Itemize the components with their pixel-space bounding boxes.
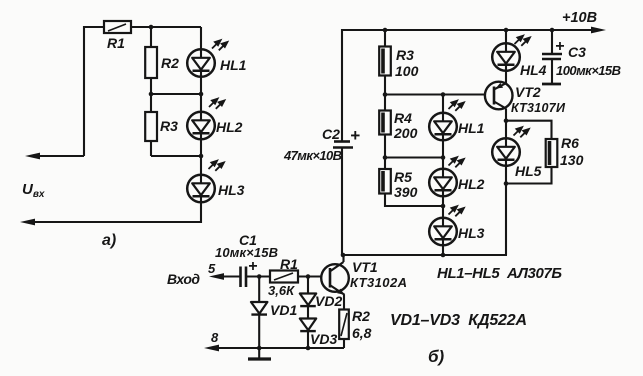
resistor R3 (circuit a) [150,94,152,156]
diode VD2 [307,277,309,349]
capacitor C1 [239,267,242,288]
resistor R1 3.6K [270,271,298,283]
svg-text:+10В: +10В [562,10,597,26]
LED HL2 (circuit a) [187,112,215,140]
svg-text:47мк×10В: 47мк×10В [283,148,342,163]
wire: rung R4/R5 to HL1/HL2 [385,156,443,158]
node: rung3 right [199,154,204,159]
svg-text:+: + [350,126,360,145]
svg-text:R1: R1 [280,256,298,272]
svg-text:HL1: HL1 [458,120,485,136]
wire: left rail upper part [341,29,343,141]
resistor R2 6.8 [339,310,349,340]
svg-text:6,8: 6,8 [352,325,372,341]
node: rail left [341,253,346,258]
transistor VT2 KT3107I (PNP) [485,82,513,110]
transistor VT1 KT3102A (NPN) [321,264,349,292]
svg-text:VT2: VT2 [515,84,541,100]
resistor R5 390 [385,158,443,207]
svg-text:390: 390 [394,184,418,200]
svg-text:R2: R2 [161,55,179,71]
LED HL3 (circuit a) [187,175,215,203]
svg-text:R2: R2 [352,308,370,324]
node: HL3 cathode junction [441,253,446,258]
wire: bottom rail of circuit b [342,254,507,256]
svg-text:HL1–HL5 АЛ307Б: HL1–HL5 АЛ307Б [437,265,562,282]
node: rung1 left [383,92,388,97]
diode VD3 [300,319,316,332]
wire: rung to VT2 base [385,93,494,95]
wire: +10V top rail with arrow [342,29,600,31]
svg-text:VD3: VD3 [310,331,337,347]
wire: VT1 collector up to rail [342,254,344,262]
ground [258,348,260,358]
LED HL4 [505,30,507,84]
LED HL5 [492,138,520,166]
wire: left vertical of circuit a [83,26,85,156]
svg-text:R5: R5 [394,169,412,185]
node: VD1 junction [257,274,262,279]
wire: HL5 leg down to rail [505,184,507,256]
svg-text:R4: R4 [394,110,412,126]
resistor R3 100 [384,30,386,95]
node: HL1 anode junction [441,92,446,97]
svg-text:10мк×15В: 10мк×15В [215,245,278,260]
wire: rung R2-bottom / HL1-bottom [151,93,201,95]
resistor R6 130 [546,139,558,167]
resistor R2 (circuit a) [150,27,152,94]
svg-text:а): а) [102,232,116,249]
svg-text:HL5: HL5 [515,163,542,179]
node: HL5/R6 bottom [504,181,509,186]
wire: top rail of circuit a [84,26,201,28]
wire: HL2 column [200,94,202,156]
node: VD1 bottom [257,346,262,351]
svg-text:C2: C2 [322,126,340,142]
wire: bottom return rail with arrow [209,347,344,349]
node: HL2/HL3 junction [441,204,446,209]
node: VD2 junction [306,274,311,279]
svg-text:200: 200 [393,125,418,141]
node: rung2 right [441,155,446,160]
node: R3 top junction [383,28,388,33]
svg-text:КТ3107И: КТ3107И [511,101,566,115]
svg-text:8: 8 [211,330,219,345]
wire: input lead with arrow [214,275,240,277]
wire: HL5/R6 loop [506,121,552,184]
LED HL3 (circuit b) [429,218,457,246]
svg-text:100: 100 [395,63,419,79]
svg-text:б): б) [428,347,445,366]
LED HL2 (circuit b) [429,169,457,197]
wire: VT2 collector down [505,109,507,121]
capacitor C2 [334,140,350,143]
wire: R1 to VT1 base [298,275,329,277]
svg-text:VT1: VT1 [352,259,378,275]
node: rung2 left [383,155,388,160]
svg-text:HL2: HL2 [458,176,485,192]
node: VD3 bottom [306,346,311,351]
svg-text:R1: R1 [107,35,125,51]
wire: left rail lower part [341,148,343,256]
diode VD1 [258,277,260,349]
svg-text:C3: C3 [568,44,586,60]
wire: HL column (b) [442,95,444,256]
svg-text:КТ3102А: КТ3102А [350,275,407,290]
svg-text:HL3: HL3 [218,182,245,198]
wire: upper input lead with arrow [30,155,84,157]
svg-text:R3: R3 [396,47,414,63]
svg-text:HL1: HL1 [220,57,247,73]
svg-text:HL2: HL2 [216,119,243,135]
svg-text:VD2: VD2 [315,293,342,309]
node: HL5/R6 top [504,118,509,123]
svg-text:5: 5 [208,261,216,276]
LED HL1 (circuit a) [187,49,215,77]
wire: VT1 emitter to R2 [343,295,345,310]
svg-text:VD1–VD3 КД522А: VD1–VD3 КД522А [390,312,527,329]
resistor R4 200 [384,95,386,158]
node: rung2 left [149,92,154,97]
svg-text:3,6К: 3,6К [268,283,295,298]
svg-text:HL3: HL3 [458,225,485,241]
node: HL4 top junction [504,28,509,33]
svg-text:130: 130 [560,152,584,168]
LED HL1 (circuit b) [429,113,457,141]
capacitor C3 [550,28,555,33]
wire: HL3 column and bottom output [25,156,201,222]
svg-text:R3: R3 [160,118,178,134]
svg-text:R6: R6 [561,135,579,151]
wire: HL1 column [200,27,202,94]
svg-text:HL4: HL4 [520,62,547,78]
wire: R2 bottom to rail [343,339,345,348]
svg-text:VD1: VD1 [270,302,297,318]
wire: rung R3-bottom / HL2-bottom [151,155,201,157]
wire: C1 to R1 [246,275,270,277]
svg-text:100мк×15В: 100мк×15В [556,63,621,78]
node: R1/R2 junction [149,25,154,30]
svg-text:+: + [555,38,564,55]
node: rung2 right [199,92,204,97]
svg-text:Вход: Вход [167,271,200,287]
svg-text:+: + [248,258,257,275]
resistor R1 (circuit a) [104,21,131,33]
